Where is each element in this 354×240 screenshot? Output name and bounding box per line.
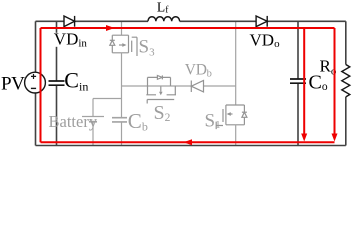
svg-text:Battery: Battery	[49, 112, 98, 131]
transistor S1	[216, 105, 247, 129]
wire battery bus	[93, 98, 122, 100]
capacitor C_b	[112, 118, 127, 146]
wire C_o branch upper	[297, 21, 299, 79]
capacitor C_o	[290, 79, 306, 83]
wire C_o branch lower	[297, 83, 299, 145]
wire left border above PV	[35, 21, 37, 72]
svg-text:Cin: Cin	[64, 67, 88, 93]
wire red bottom	[41, 141, 335, 143]
svg-text:VDo: VDo	[250, 31, 281, 51]
svg-text:S1: S1	[205, 111, 221, 132]
resistor R_o	[342, 65, 350, 97]
red arrow down right	[332, 134, 338, 142]
source PV circle	[25, 72, 46, 93]
PV plus	[31, 74, 36, 79]
PV minus	[31, 87, 36, 89]
gray network: S3 drain branch wire	[82, 22, 247, 146]
S1 arrowhead	[227, 112, 231, 116]
transistor S2	[146, 75, 176, 103]
wire S1 drain branch from top bus	[235, 22, 237, 105]
label VD_in background	[52, 33, 90, 47]
wire VD_b right side	[204, 85, 236, 87]
wire C_in branch lower	[56, 85, 58, 145]
wire S2 horizontal	[122, 85, 192, 87]
diode VD_b	[191, 81, 203, 93]
svg-text:S2: S2	[154, 102, 171, 124]
red current path	[41, 28, 335, 142]
battery	[82, 99, 104, 146]
S3 arrowhead	[122, 43, 126, 47]
wire S3 source down to C_b	[121, 53, 123, 118]
svg-text:Cb: Cb	[128, 109, 148, 134]
wire red left	[40, 28, 42, 142]
red arrow right on top	[106, 25, 115, 31]
black wires	[36, 21, 346, 145]
svg-text:S3: S3	[139, 36, 156, 58]
wire left border below PV	[35, 93, 37, 146]
diode VD_in	[64, 16, 75, 27]
svg-text:VDb: VDb	[185, 62, 212, 80]
red arrow down C_o branch	[301, 134, 307, 142]
wire right border below resistor	[345, 97, 347, 146]
diode VD_o	[256, 16, 267, 27]
svg-text:PV: PV	[1, 73, 25, 94]
wire top bus	[36, 20, 346, 22]
wire red right	[334, 28, 336, 135]
svg-text:Lf: Lf	[157, 0, 169, 16]
red arrow left on bottom	[184, 139, 193, 145]
inductor L_f	[148, 17, 180, 22]
capacitor C_in	[49, 81, 65, 85]
wire red C_o branch	[303, 28, 305, 135]
wire bottom bus	[36, 145, 346, 147]
wire C_in branch upper	[56, 21, 58, 81]
wire red top	[41, 27, 335, 29]
transistor S3	[110, 35, 137, 56]
S2 arrowhead	[159, 92, 163, 96]
wire right border above resistor	[345, 21, 347, 64]
wire S1 source to bottom	[235, 125, 237, 146]
svg-text:VDin: VDin	[54, 30, 88, 50]
wire S3 drain from top bus	[121, 22, 123, 35]
